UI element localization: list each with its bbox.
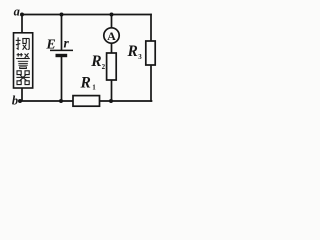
wire ammeter branch upper bbox=[111, 15, 113, 29]
ammeter A bbox=[104, 28, 119, 43]
svg-text:a: a bbox=[14, 4, 20, 18]
battery negative short thick plate bbox=[56, 54, 68, 57]
svg-text:R: R bbox=[127, 43, 138, 60]
svg-text:1: 1 bbox=[92, 83, 96, 91]
node a bbox=[20, 13, 24, 17]
svg-text:E: E bbox=[45, 38, 55, 53]
resistor R1 bbox=[73, 96, 100, 107]
alarm box (bao jing qi) bbox=[14, 33, 33, 88]
wire bottom bus left of R1 bbox=[20, 100, 73, 102]
wire battery branch lower bbox=[61, 57, 63, 101]
hanzi BAO (report) strokes bbox=[16, 37, 30, 49]
wire ammeter to R2 bbox=[111, 43, 113, 53]
battery E r : positive long plate bbox=[50, 49, 73, 51]
wire right edge upper segment bbox=[150, 15, 152, 42]
node battery top junction bbox=[60, 13, 64, 17]
svg-text:A: A bbox=[107, 29, 116, 43]
wire bottom bus right of R1 bbox=[100, 100, 152, 102]
node ammeter branch top junction bbox=[110, 13, 114, 17]
node R2 bottom junction bbox=[109, 99, 113, 103]
svg-text:R: R bbox=[80, 75, 91, 92]
svg-text:b: b bbox=[12, 94, 18, 108]
svg-text:R: R bbox=[90, 53, 101, 70]
node b bbox=[18, 99, 22, 103]
wire R2 to bottom bus bbox=[111, 80, 113, 101]
resistor R2 bbox=[107, 53, 117, 80]
hanzi QI (device) strokes bbox=[16, 71, 29, 85]
wire node a to alarm box bbox=[21, 15, 23, 33]
resistor R3 bbox=[146, 41, 155, 65]
wire top bus a to top-right corner bbox=[22, 14, 151, 16]
svg-text:3: 3 bbox=[138, 53, 142, 61]
wire battery branch upper bbox=[61, 15, 63, 50]
svg-text:r: r bbox=[64, 35, 70, 50]
wire alarm box to node b bbox=[21, 88, 23, 101]
svg-text:2: 2 bbox=[102, 63, 106, 71]
hanzi JING (warn) strokes bbox=[16, 53, 30, 69]
node battery bottom junction bbox=[59, 99, 63, 103]
wire right edge lower segment bbox=[150, 65, 152, 101]
